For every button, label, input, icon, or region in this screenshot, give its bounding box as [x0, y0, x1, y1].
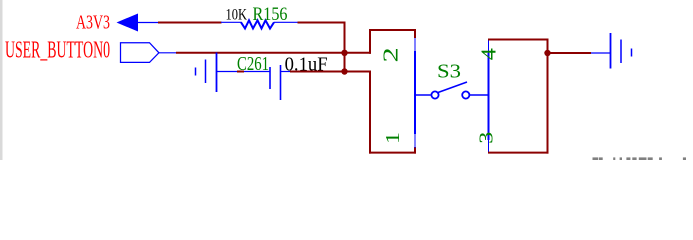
- wire horizontal to pin 2 top: [369, 29, 416, 31]
- port USER_BUTTON0: [121, 43, 177, 63]
- svg-text:C261: C261: [237, 54, 269, 75]
- svg-text:A3V3: A3V3: [76, 12, 110, 34]
- switch S3 lever and contacts: [416, 82, 488, 99]
- wire vertical up to pin 2: [369, 30, 371, 54]
- watermark text fragment (clipped at page bottom): [593, 157, 687, 160]
- wire USER_BUTTON0 to switch: [176, 52, 371, 54]
- wire stub at pin 1: [414, 147, 416, 154]
- wire pin 4 top horizontal: [488, 39, 549, 41]
- wire pin 3 bottom horizontal: [488, 152, 549, 154]
- node junction dot 1: [341, 50, 347, 56]
- switch S3 right contact bar (pins 4/3): [488, 39, 490, 152]
- wire vertical down to pin 1: [369, 71, 371, 154]
- svg-text:R156: R156: [253, 4, 288, 25]
- node junction dot 3: [544, 50, 550, 56]
- node junction dot 2: [341, 68, 347, 74]
- switch S3 left contact bar (pins 2/1): [414, 38, 416, 148]
- svg-text:2: 2: [379, 47, 402, 62]
- ground symbol (right): [591, 33, 632, 69]
- power symbol A3V3 (blue arrow): [117, 14, 159, 32]
- sheet border strip: [0, 0, 3, 160]
- svg-text:10K: 10K: [226, 7, 248, 24]
- wire stub at pin 2: [414, 29, 416, 38]
- wire A3V3 to resistor: [158, 22, 222, 24]
- svg-text:S3: S3: [437, 61, 461, 83]
- capacitor C261: [244, 65, 290, 100]
- ground symbol (left, at capacitor): [196, 53, 238, 93]
- svg-text:4: 4: [477, 48, 500, 60]
- wire capacitor to junction: [290, 71, 371, 73]
- wire vertical at junction column: [344, 22, 346, 72]
- svg-text:3: 3: [474, 132, 497, 144]
- svg-text:USER_BUTTON0: USER_BUTTON0: [5, 37, 110, 64]
- wire ground to capacitor: [237, 71, 244, 73]
- wire right vertical pin4-pin3: [547, 39, 549, 154]
- wire to ground: [547, 52, 592, 54]
- svg-text:1: 1: [381, 132, 404, 144]
- resistor R156: [221, 20, 298, 28]
- wire horizontal to pin 1 bottom: [369, 152, 416, 154]
- wire resistor to corner: [298, 22, 346, 24]
